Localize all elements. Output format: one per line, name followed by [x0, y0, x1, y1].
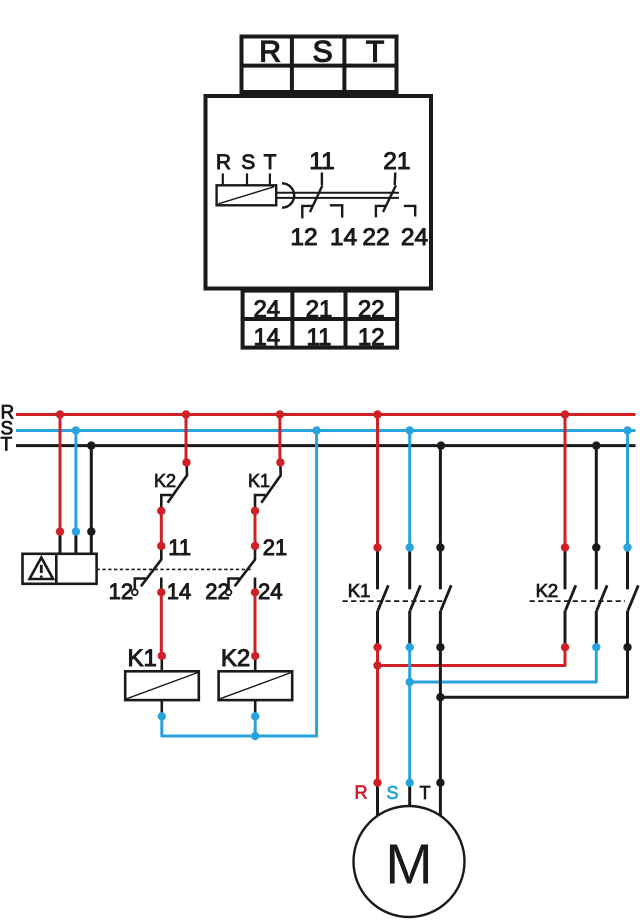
svg-text:14: 14	[167, 579, 191, 604]
svg-text:21: 21	[263, 535, 287, 560]
svg-text:12: 12	[109, 579, 133, 604]
svg-text:T: T	[366, 36, 384, 69]
svg-text:14: 14	[253, 324, 280, 351]
svg-text:K2: K2	[154, 471, 176, 491]
svg-text:K2: K2	[221, 645, 250, 672]
svg-text:K2: K2	[536, 580, 559, 601]
svg-text:K1: K1	[348, 580, 371, 601]
svg-text:K1: K1	[248, 471, 270, 491]
svg-text:12: 12	[290, 224, 317, 251]
svg-text:R: R	[216, 151, 231, 174]
svg-text:21: 21	[383, 148, 410, 175]
svg-text:M: M	[385, 833, 432, 897]
svg-text:21: 21	[306, 296, 333, 323]
svg-text:24: 24	[401, 224, 428, 251]
svg-text:14: 14	[330, 224, 357, 251]
svg-text:S: S	[313, 36, 333, 69]
svg-text:11: 11	[168, 535, 191, 560]
svg-text:T: T	[420, 783, 431, 803]
svg-text:12: 12	[358, 324, 385, 351]
svg-text:22: 22	[358, 296, 385, 323]
svg-text:22: 22	[205, 579, 229, 604]
svg-text:S: S	[387, 783, 399, 803]
svg-text:11: 11	[307, 324, 332, 351]
svg-text:S: S	[241, 151, 255, 174]
svg-text:22: 22	[362, 224, 389, 251]
svg-text:T: T	[264, 151, 277, 174]
svg-text:11: 11	[309, 148, 334, 175]
svg-text:R: R	[259, 36, 281, 69]
svg-text:K1: K1	[128, 645, 157, 672]
svg-text:24: 24	[258, 579, 282, 604]
svg-text:T: T	[1, 435, 13, 456]
svg-text:R: R	[355, 783, 368, 803]
svg-text:24: 24	[253, 296, 280, 323]
